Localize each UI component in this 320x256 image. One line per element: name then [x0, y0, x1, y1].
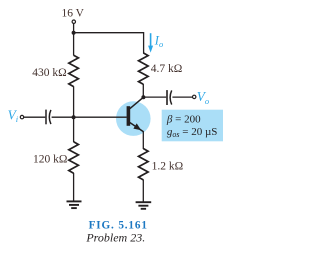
wire cap to Vo terminal: [172, 96, 192, 98]
label 16 V supply: [61, 7, 84, 19]
svg-text:1.2 kΩ: 1.2 kΩ: [152, 161, 184, 173]
svg-text:120 kΩ: 120 kΩ: [33, 154, 67, 166]
terminal Vo: [193, 95, 196, 98]
label 430 kOhm: [32, 67, 66, 79]
current arrow Io: [148, 33, 153, 52]
resistor 1.2k: [139, 149, 149, 180]
ground right: [136, 202, 152, 209]
svg-text:Vo: Vo: [197, 89, 209, 106]
wire input cap to base node: [52, 116, 74, 118]
label 120 kOhm: [33, 154, 67, 166]
caption Problem 23: [85, 231, 145, 245]
resistor 430k: [69, 55, 79, 86]
svg-text:16 V: 16 V: [61, 7, 84, 19]
wire top rail: [74, 33, 144, 54]
svg-text:Problem 23.: Problem 23.: [85, 231, 145, 245]
ground left: [67, 201, 82, 208]
capacitor output: [167, 90, 172, 105]
wire 120k to ground: [73, 173, 75, 201]
wire resistor to collector node: [142, 84, 144, 98]
wire base node down to 120k: [73, 117, 75, 142]
label 1.2 kOhm: [152, 161, 184, 173]
wire base node to transistor base: [74, 116, 127, 118]
resistor 4.7k: [139, 53, 149, 84]
label Io: [154, 33, 163, 49]
svg-text:Vi: Vi: [8, 107, 19, 124]
junction base node: [72, 115, 76, 119]
wire Vi terminal to input cap: [24, 116, 46, 118]
transistor Q1 symbol: [127, 97, 144, 132]
resistor 120k: [69, 142, 79, 173]
node Vo label: [197, 89, 209, 106]
left rail wire top junction to 430k: [73, 33, 75, 56]
capacitor input: [46, 110, 51, 125]
wire supply to junction: [73, 24, 75, 34]
svg-text:β = 200: β = 200: [166, 113, 201, 125]
junction collector node: [141, 95, 145, 99]
label 4.7 kOhm: [151, 63, 183, 75]
junction top: [72, 31, 76, 35]
wire 1.2k to ground: [142, 180, 144, 202]
wire 430k to base node: [73, 86, 75, 117]
terminal Vi: [20, 115, 23, 118]
caption FIG. 5.161: [89, 220, 148, 232]
node Vi label: [8, 107, 19, 124]
svg-text:430 kΩ: 430 kΩ: [32, 67, 66, 79]
annotation box beta and gos: [162, 110, 223, 142]
svg-text:4.7 kΩ: 4.7 kΩ: [151, 63, 183, 75]
wire collector node to output cap: [143, 96, 166, 98]
transistor Q1 body circle: [116, 101, 151, 136]
wire emitter down: [142, 131, 144, 149]
svg-text:Io: Io: [154, 33, 163, 49]
terminal 16V: [72, 20, 75, 23]
